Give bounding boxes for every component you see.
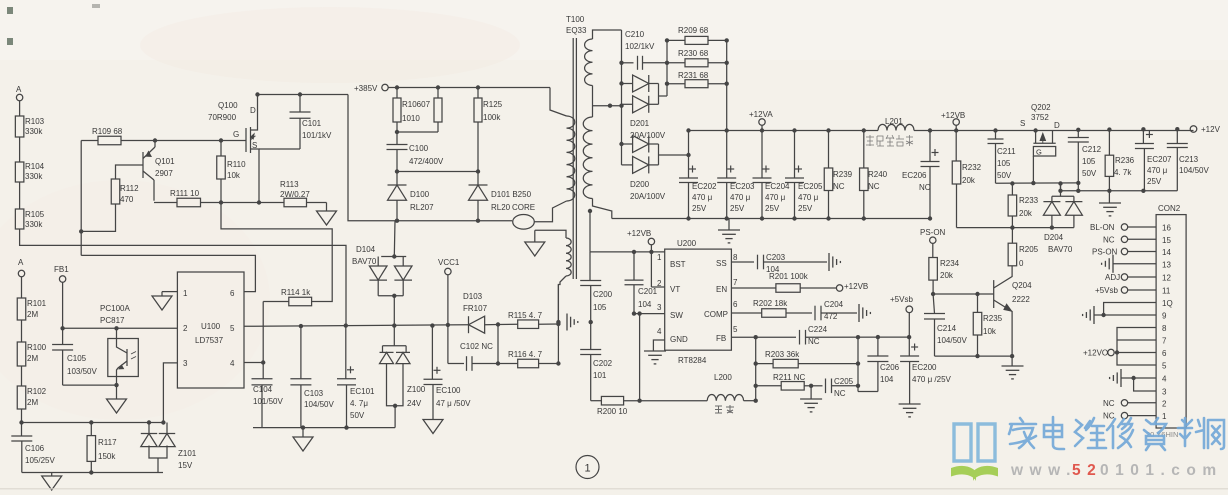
- svg-text:NC: NC: [868, 182, 880, 191]
- wire snubber drop: [348, 95, 397, 221]
- wire U100 pin2 row: [63, 327, 178, 329]
- pin 2 NC: [1128, 402, 1156, 404]
- svg-text:105: 105: [997, 159, 1011, 168]
- svg-text:U200: U200: [677, 239, 697, 248]
- capacitor C211 105/50V: [993, 128, 997, 132]
- capacitor C103 104/50V: [300, 326, 302, 379]
- svg-text:+12V: +12V: [1201, 125, 1221, 134]
- svg-text:7: 7: [1162, 337, 1167, 346]
- svg-text:R100: R100: [27, 343, 47, 352]
- wire +12VB rail: [914, 130, 1194, 132]
- svg-text:R115 4. 7: R115 4. 7: [508, 311, 543, 320]
- svg-text:C214: C214: [937, 324, 957, 333]
- svg-text:470 μ: 470 μ: [692, 193, 713, 202]
- svg-text:PS-ON: PS-ON: [1092, 248, 1118, 257]
- svg-text:R103: R103: [25, 117, 45, 126]
- svg-text:C211: C211: [997, 147, 1016, 156]
- svg-text:2907: 2907: [155, 169, 173, 178]
- capacitor C213 104/50V: [1175, 127, 1179, 131]
- svg-text:Q100: Q100: [218, 101, 238, 110]
- svg-text:4: 4: [1162, 375, 1167, 384]
- svg-text:C101: C101: [302, 119, 322, 128]
- svg-text:C206: C206: [880, 363, 900, 372]
- wire bottom rail: [22, 472, 163, 474]
- resistor R107: [437, 88, 439, 99]
- secondary top winding: [593, 30, 622, 39]
- diode D104 BAV70 pair: [393, 221, 396, 257]
- svg-text:BAV70: BAV70: [1048, 245, 1073, 254]
- svg-text:Q202: Q202: [1031, 103, 1051, 112]
- svg-text:C213: C213: [1179, 155, 1199, 164]
- svg-text:C106: C106: [25, 444, 45, 453]
- svg-text:330k: 330k: [25, 220, 43, 229]
- svg-text:R202 18k: R202 18k: [753, 299, 788, 308]
- resistor R111: [154, 202, 177, 204]
- svg-text:A: A: [16, 85, 22, 94]
- svg-text:R209 68: R209 68: [678, 26, 709, 35]
- resistor R117 150k: [90, 423, 92, 436]
- svg-text:R102: R102: [27, 387, 47, 396]
- wire +5Vsb node: [876, 335, 880, 339]
- svg-text:FR107: FR107: [463, 304, 488, 313]
- ground EC100: [423, 420, 443, 434]
- capacitor C205 NC: [811, 385, 822, 387]
- svg-text:R231 68: R231 68: [678, 71, 709, 80]
- ground R211/C205: [810, 386, 812, 399]
- svg-text:R211 NC: R211 NC: [773, 373, 806, 382]
- svg-text:105: 105: [1082, 157, 1096, 166]
- svg-text:CON2: CON2: [1158, 204, 1181, 213]
- svg-text:470 μ: 470 μ: [798, 193, 819, 202]
- svg-text:+12VB: +12VB: [627, 229, 651, 238]
- svg-text:EC101: EC101: [350, 387, 375, 396]
- svg-text:472: 472: [824, 312, 838, 321]
- resistor R106: [396, 88, 398, 99]
- capacitor C201 104: [632, 250, 636, 254]
- ground U200 GND: [653, 340, 664, 351]
- pin 1 NC: [1128, 415, 1156, 417]
- resistor R233 20k: [1008, 195, 1017, 216]
- svg-text:NC: NC: [1103, 399, 1115, 408]
- svg-text:20k: 20k: [940, 271, 954, 280]
- ground after R113: [326, 203, 328, 212]
- svg-text:NC: NC: [834, 389, 846, 398]
- capacitor EC202 470u/25V: [686, 128, 690, 132]
- capacitor EC203 470u/25V: [725, 128, 729, 132]
- svg-text:R201 100k: R201 100k: [769, 272, 809, 281]
- pins 8-5 +12VO bus: [1117, 328, 1156, 366]
- secondary bottom winding: [583, 117, 592, 199]
- node R115 right: [556, 322, 560, 326]
- resistor R109: [81, 140, 98, 142]
- wire R114 left to CS node: [262, 302, 264, 363]
- svg-text:20A/100V: 20A/100V: [630, 192, 666, 201]
- svg-text:470 μ: 470 μ: [730, 193, 751, 202]
- wire U100 pin5 VCC row: [244, 325, 346, 328]
- svg-text:R110: R110: [227, 160, 246, 169]
- primary winding: [550, 88, 567, 117]
- wire: [221, 202, 259, 204]
- svg-text:C102 NC: C102 NC: [460, 342, 493, 351]
- svg-text:EC207: EC207: [1147, 155, 1172, 164]
- wire R233 col: [1011, 184, 1013, 196]
- capacitor EC206 NC: [928, 128, 932, 132]
- svg-text:T100: T100: [566, 15, 585, 24]
- svg-text:2222: 2222: [1012, 295, 1030, 304]
- svg-text:R111 10: R111 10: [170, 189, 200, 198]
- aux winding VCC: [535, 230, 566, 238]
- capacitor C105 103/50V: [62, 328, 64, 344]
- wire +385V rail: [388, 87, 550, 89]
- wire U100 pin6 loop: [81, 255, 255, 291]
- svg-text:U100: U100: [201, 322, 221, 331]
- svg-text:C205: C205: [834, 377, 854, 386]
- svg-text:C212: C212: [1082, 145, 1102, 154]
- svg-text:Q101: Q101: [155, 157, 175, 166]
- wire gate node row: [996, 182, 1079, 184]
- core ellipse: [513, 215, 535, 230]
- svg-text:R104: R104: [25, 162, 45, 171]
- svg-text:C105: C105: [67, 354, 87, 363]
- svg-text:LD7537: LD7537: [195, 336, 224, 345]
- svg-text:15: 15: [1162, 236, 1171, 245]
- svg-text:NC: NC: [1103, 412, 1115, 421]
- diode D204 BAV70 pair: [1060, 184, 1062, 197]
- capacitor EC200 470u/25V: [908, 337, 910, 356]
- svg-text:EC200: EC200: [912, 363, 937, 372]
- resistor R202 18k on COMP: [731, 312, 761, 314]
- svg-text:470 μ /25V: 470 μ /25V: [912, 375, 952, 384]
- resistor R102 2M: [17, 386, 26, 409]
- resistor R100 2M: [17, 342, 26, 366]
- wire to gate: [155, 140, 221, 142]
- wire: [19, 182, 21, 209]
- svg-text:+5Vsb: +5Vsb: [1095, 286, 1118, 295]
- resistor R113: [259, 202, 284, 204]
- ic U200 RT8284: [665, 249, 732, 350]
- chassis C204: [858, 304, 860, 322]
- label L201 bead text: [866, 135, 913, 146]
- svg-text:470 μ: 470 μ: [1147, 166, 1168, 175]
- svg-text:3752: 3752: [1031, 113, 1049, 122]
- svg-text:470: 470: [120, 195, 134, 204]
- diode D201 pair 20A/100V: [622, 83, 633, 85]
- svg-text:4. 7μ: 4. 7μ: [350, 399, 368, 408]
- svg-text:R232: R232: [962, 163, 982, 172]
- svg-text:R117: R117: [98, 438, 117, 447]
- svg-text:NC: NC: [919, 183, 931, 192]
- svg-text:D101 B250: D101 B250: [491, 190, 532, 199]
- capacitor C206 104: [877, 337, 879, 356]
- resistor R240 NC: [862, 128, 866, 132]
- wire U100 pin4 row: [244, 362, 263, 364]
- svg-text:52: 52: [1072, 462, 1102, 479]
- svg-text:C224: C224: [808, 325, 828, 334]
- svg-text:5: 5: [733, 325, 738, 334]
- svg-text:470 μ: 470 μ: [765, 193, 786, 202]
- wire C224 net down: [857, 337, 859, 391]
- diode D200 pair 20A/100V: [622, 143, 633, 145]
- svg-text:25V: 25V: [765, 204, 780, 213]
- svg-text:C104: C104: [253, 385, 273, 394]
- ground EC200: [899, 403, 921, 405]
- diode D101 B250: [469, 184, 488, 186]
- ground PC817: [116, 385, 118, 399]
- svg-text:SW: SW: [670, 311, 683, 320]
- transistor Q204 2222: [993, 280, 995, 308]
- svg-text:104: 104: [880, 375, 894, 384]
- svg-text:R109 68: R109 68: [92, 127, 123, 136]
- svg-text:25V: 25V: [798, 204, 813, 213]
- svg-text:4: 4: [230, 359, 235, 368]
- capacitor C200 105: [589, 211, 591, 252]
- svg-text:D104: D104: [356, 245, 376, 254]
- svg-text:9: 9: [1162, 312, 1167, 321]
- wire diode anode bus: [395, 219, 399, 223]
- wire emitter row: [935, 355, 1013, 357]
- svg-text:R203 36k: R203 36k: [765, 350, 800, 359]
- svg-text:R239: R239: [833, 170, 853, 179]
- svg-text:6: 6: [733, 300, 738, 309]
- watermark chinese characters: [1009, 417, 1224, 450]
- svg-text:D201: D201: [630, 119, 650, 128]
- svg-text:A: A: [18, 258, 24, 267]
- svg-text:R230 68: R230 68: [678, 49, 709, 58]
- svg-text:47 μ /50V: 47 μ /50V: [436, 399, 471, 408]
- wire line-a R111 node to R114: [221, 203, 332, 302]
- wire snubber R bus left: [666, 40, 668, 96]
- svg-text:C200: C200: [593, 290, 613, 299]
- secondary tap: [592, 86, 594, 118]
- svg-text:8: 8: [1162, 324, 1167, 333]
- svg-text:R114 1k: R114 1k: [281, 288, 311, 297]
- ground below C103: [302, 428, 304, 437]
- svg-text:EC204: EC204: [765, 182, 790, 191]
- svg-text:C204: C204: [824, 300, 844, 309]
- svg-text:+12VO: +12VO: [1083, 349, 1108, 358]
- watermark book icon: [954, 424, 995, 461]
- svg-text:R233: R233: [1019, 196, 1039, 205]
- svg-text:BL-ON: BL-ON: [1090, 223, 1115, 232]
- node R106 bottom: [396, 122, 398, 132]
- wire bias gnd row: [22, 422, 164, 424]
- svg-text:R200 10: R200 10: [597, 407, 628, 416]
- svg-text:D100: D100: [410, 190, 430, 199]
- pin 13 ground: [1113, 263, 1156, 265]
- capacitor EC204 470u/25V: [760, 128, 764, 132]
- resistor R234 20k: [929, 258, 938, 281]
- resistor R125 100k: [477, 88, 479, 99]
- wire U100 pin1 to ground: [162, 291, 177, 293]
- svg-text:C202: C202: [593, 359, 613, 368]
- pin 4/3 ground: [1121, 377, 1156, 379]
- svg-text:R10607: R10607: [402, 100, 431, 109]
- svg-text:+385V: +385V: [354, 84, 378, 93]
- svg-text:25V: 25V: [692, 204, 707, 213]
- svg-text:EC202: EC202: [692, 182, 717, 191]
- resistor R110: [220, 141, 222, 157]
- capacitor EC207 470u 25V: [1141, 127, 1145, 131]
- svg-text:0: 0: [1019, 259, 1024, 268]
- svg-text:R105: R105: [25, 210, 45, 219]
- wire gnd jog row: [1061, 190, 1178, 192]
- wire Q101 base to R112: [116, 165, 144, 179]
- svg-text:+12VB: +12VB: [941, 111, 965, 120]
- svg-text:D: D: [1054, 121, 1060, 130]
- capacitor C202 101: [590, 322, 592, 349]
- svg-text:C103: C103: [304, 389, 324, 398]
- svg-text:472/400V: 472/400V: [409, 157, 444, 166]
- resistor R201 100k on EN: [731, 287, 776, 289]
- svg-text:PC817: PC817: [100, 316, 125, 325]
- svg-text:0101.com: 0101.com: [1100, 462, 1223, 479]
- svg-text:104/50V: 104/50V: [937, 336, 967, 345]
- wire SW lead: [634, 313, 665, 315]
- svg-text:104/50V: 104/50V: [1179, 166, 1209, 175]
- wire U100 pin3: [163, 363, 177, 423]
- svg-text:330k: 330k: [25, 172, 43, 181]
- resistor R232 20k: [955, 131, 957, 162]
- svg-text:105: 105: [593, 303, 607, 312]
- capacitor C106 105/25V: [19, 420, 23, 424]
- svg-text:100k: 100k: [483, 113, 501, 122]
- svg-text:330k: 330k: [25, 127, 43, 136]
- svg-text:VCC1: VCC1: [438, 258, 460, 267]
- capacitor C101 101/1kV: [299, 95, 301, 113]
- svg-text:10k: 10k: [227, 171, 241, 180]
- svg-text:L200: L200: [714, 373, 732, 382]
- svg-text:Z101: Z101: [178, 449, 197, 458]
- svg-text:6: 6: [230, 289, 235, 298]
- svg-text:1: 1: [584, 463, 590, 475]
- chassis C203: [828, 253, 830, 271]
- wire drain rail: [255, 92, 259, 96]
- pin 16 BL-ON: [1128, 226, 1156, 228]
- capacitor C214 104/50V: [933, 294, 934, 314]
- svg-text:BST: BST: [670, 260, 686, 269]
- svg-text:NC: NC: [833, 182, 845, 191]
- resistor R104: [15, 162, 24, 182]
- svg-text:D200: D200: [630, 180, 650, 189]
- capacitor C104 101/50V: [262, 363, 264, 379]
- svg-text:10k: 10k: [983, 327, 997, 336]
- ground earth below rail: [728, 219, 730, 231]
- svg-text:105/25V: 105/25V: [25, 456, 55, 465]
- svg-text:R235: R235: [983, 314, 1003, 323]
- ground aux top: [534, 230, 536, 242]
- label dian-gan scribble: [715, 405, 734, 413]
- svg-text:C210: C210: [625, 30, 645, 39]
- wire R200 to SW: [637, 399, 641, 403]
- svg-text:+12VA: +12VA: [749, 110, 773, 119]
- diode D100 RL207: [388, 184, 407, 186]
- svg-text:2M: 2M: [27, 310, 38, 319]
- svg-text:2: 2: [657, 279, 662, 288]
- wire FB row: [731, 336, 796, 338]
- svg-text:SS: SS: [716, 259, 727, 268]
- svg-text:20k: 20k: [1019, 209, 1033, 218]
- svg-text:VT: VT: [670, 285, 680, 294]
- terminal +12VB at EN: [836, 285, 842, 291]
- svg-text:1: 1: [1162, 412, 1167, 421]
- capacitor C212 105/50V: [1076, 128, 1080, 132]
- resistor R205 0: [1011, 228, 1013, 244]
- svg-text:Q204: Q204: [1012, 281, 1032, 290]
- wire aux return to C202: [557, 285, 559, 364]
- svg-text:3: 3: [183, 359, 188, 368]
- svg-text:104/50V: 104/50V: [304, 400, 334, 409]
- transistor Q101 (PNP 2907): [142, 152, 144, 178]
- capacitor C224 NC: [799, 330, 801, 345]
- svg-text:R125: R125: [483, 100, 503, 109]
- svg-text:1Q: 1Q: [1162, 299, 1173, 308]
- svg-text:102/1kV: 102/1kV: [625, 42, 655, 51]
- svg-text:14: 14: [1162, 248, 1171, 257]
- svg-text:PS-ON: PS-ON: [920, 228, 946, 237]
- wire R112 bottom: [81, 204, 115, 231]
- svg-text:www.: www.: [1010, 462, 1077, 479]
- pin 12 ADJ: [1128, 276, 1156, 278]
- wire C200 to BST: [590, 251, 665, 253]
- svg-text:8: 8: [733, 253, 738, 262]
- wire snubber R bus right: [726, 40, 728, 130]
- svg-text:EC203: EC203: [730, 182, 755, 191]
- wire: [19, 137, 21, 162]
- svg-text:+12VB: +12VB: [844, 282, 868, 291]
- chassis symbol near C200: [566, 314, 568, 331]
- svg-text:FB: FB: [716, 334, 726, 343]
- svg-text:1: 1: [183, 289, 188, 298]
- svg-text:R240: R240: [868, 170, 888, 179]
- wire R232 to R233 bottom: [957, 227, 1013, 229]
- svg-text:3: 3: [1162, 388, 1167, 397]
- svg-text:15V: 15V: [178, 461, 193, 470]
- resistor R203 36k: [756, 363, 773, 365]
- svg-text:1: 1: [657, 253, 662, 262]
- svg-text:2: 2: [1162, 399, 1167, 408]
- ground Q204: [1011, 356, 1013, 366]
- svg-text:R101: R101: [27, 299, 47, 308]
- svg-text:11: 11: [1162, 287, 1171, 296]
- svg-text:101/50V: 101/50V: [253, 397, 283, 406]
- pin 11 +5Vsb: [1128, 289, 1156, 291]
- svg-text:EC205: EC205: [798, 182, 823, 191]
- svg-text:CORE: CORE: [512, 203, 535, 212]
- svg-text:20k: 20k: [962, 176, 976, 185]
- page marker 1: [576, 456, 599, 479]
- svg-text:50V: 50V: [350, 411, 365, 420]
- resistor R105: [15, 209, 24, 229]
- capacitor EC101 4.7u 50V: [345, 326, 347, 379]
- ground pin1: [152, 296, 172, 310]
- wire FB down: [755, 337, 757, 401]
- svg-text:2M: 2M: [27, 398, 38, 407]
- ground bottom rail: [51, 473, 53, 477]
- node C100 bottom: [395, 169, 399, 173]
- svg-text:103/50V: 103/50V: [67, 367, 97, 376]
- svg-text:104: 104: [638, 300, 652, 309]
- svg-text:6: 6: [1162, 349, 1167, 358]
- resistor R103: [15, 116, 24, 137]
- resistor R211 NC: [756, 385, 782, 387]
- capacitor C204 472: [814, 306, 816, 321]
- svg-text:50V: 50V: [997, 171, 1012, 180]
- svg-text:20A/100V: 20A/100V: [630, 131, 666, 140]
- wire base row: [933, 293, 994, 295]
- svg-text:Z100: Z100: [407, 385, 426, 394]
- wire VCC row right: [346, 324, 448, 327]
- svg-text:C203: C203: [766, 253, 786, 262]
